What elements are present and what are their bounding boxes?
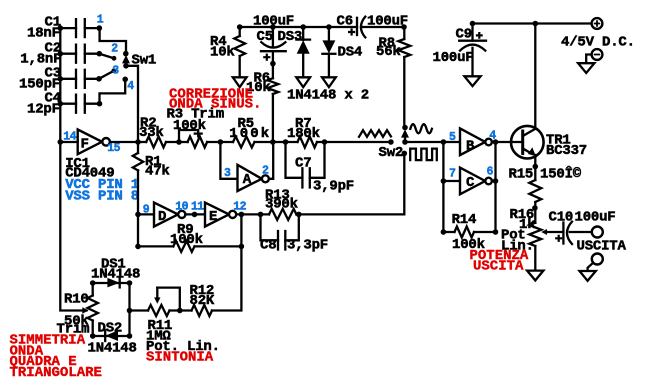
svg-text:100k: 100k: [229, 126, 271, 142]
node 10-11: [192, 212, 198, 218]
node Sw2 sine contact: [402, 125, 408, 131]
plus terminal: [592, 18, 603, 29]
node DS2 right: [127, 333, 133, 339]
node bus-C3: [58, 76, 64, 82]
wire R9 right: [195, 245, 242, 247]
node R4 top: [237, 24, 243, 30]
wire supply rail: [473, 22, 592, 24]
node DS4 top: [326, 24, 332, 30]
resistor R11 potentiometer: [148, 305, 170, 316]
Sw1 contact 4: [122, 77, 128, 83]
resistor R5: [233, 137, 255, 148]
resistor R3 trimmer: [188, 137, 208, 148]
node bus-C4: [58, 101, 64, 107]
svg-text:BC337: BC337: [546, 143, 587, 159]
svg-text:390k: 390k: [265, 197, 298, 213]
svg-text:3,9pF: 3,9pF: [313, 179, 354, 195]
node R2-R3 junction: [176, 139, 182, 145]
node bus-C2: [58, 51, 64, 57]
node C7 right junction: [322, 139, 328, 145]
wire R15-R16: [534, 202, 536, 223]
node C out: [493, 178, 499, 184]
node DS1 right: [127, 280, 133, 286]
svg-text:DS2: DS2: [98, 321, 123, 337]
node collector rail: [533, 21, 539, 27]
capacitor C7: [286, 142, 303, 178]
svg-text:USCITA: USCITA: [577, 239, 627, 255]
wire R16 bottom to ground: [534, 246, 536, 271]
resistor R7: [298, 137, 318, 148]
node B out: [493, 139, 499, 145]
wire top rail: [240, 26, 357, 28]
svg-text:82K: 82K: [190, 293, 215, 309]
svg-text:15: 15: [107, 142, 120, 155]
svg-text:C7: C7: [295, 156, 311, 172]
resistor R10 trimmer: [92, 283, 94, 296]
node Sw2 square contact: [402, 151, 408, 157]
svg-text:1: 1: [97, 13, 104, 26]
wire Sw1 common to main line: [126, 66, 138, 142]
resistor R6: [268, 78, 279, 94]
node bus-F-input: [58, 139, 64, 145]
svg-text:USCITA: USCITA: [473, 258, 524, 274]
Sw2 wiper arrow: [401, 129, 409, 137]
capacitor C2: [60, 53, 76, 55]
op-amp U1A inverter A: [238, 165, 262, 191]
wire R13 to Sw2 square contact: [296, 153, 404, 214]
node R15-R16: [532, 205, 538, 211]
node R14 left: [441, 229, 447, 235]
resistor R13: [269, 209, 296, 220]
svg-text:33k: 33k: [139, 125, 164, 141]
svg-text:7: 7: [449, 168, 456, 181]
wire R2-R3: [166, 141, 188, 143]
resistor R14: [455, 227, 475, 238]
svg-text:100uF: 100uF: [253, 14, 294, 30]
svg-text:B: B: [466, 138, 475, 154]
capacitor C3: [60, 78, 76, 80]
svg-text:D: D: [158, 209, 166, 225]
resistor R12: [192, 305, 213, 316]
transistor TR1 BC337: [511, 126, 544, 159]
op-amp U1D inverter D: [154, 203, 178, 227]
svg-text:100uF: 100uF: [433, 50, 474, 66]
node C9 top: [470, 21, 476, 27]
op-amp U1F inverter F: [78, 130, 102, 155]
svg-text:VSS PIN 8: VSS PIN 8: [65, 189, 139, 205]
Sw1 contact 3: [96, 76, 102, 82]
Sw1 contact 1: [97, 25, 103, 31]
svg-text:100k: 100k: [170, 232, 203, 248]
square wave icon: [410, 149, 437, 161]
node F-out/Sw1/R1: [135, 139, 141, 145]
wire A output up to main: [269, 142, 273, 179]
node B input: [441, 139, 447, 145]
output ground terminal: [592, 254, 603, 265]
svg-text:3: 3: [112, 64, 119, 77]
wire DS2 bottom rail: [93, 335, 130, 337]
node R11 right/bracket: [177, 308, 183, 314]
wire A input: [220, 142, 237, 179]
Sw1 wiper arrow: [122, 55, 130, 63]
wire R3-R5: [207, 141, 233, 143]
node Sw2 common: [402, 139, 408, 145]
svg-text:18nF: 18nF: [27, 26, 60, 42]
Sw1 contact 2: [97, 51, 103, 57]
wire TR1 collector to rail: [534, 24, 536, 129]
svg-text:A: A: [243, 172, 252, 188]
sine wave icon: [410, 124, 432, 133]
capacitor C10: [562, 223, 564, 244]
svg-text:100uF: 100uF: [575, 210, 616, 226]
wire Sw2 pivot stem: [404, 137, 406, 142]
svg-text:1N4148 x 2: 1N4148 x 2: [287, 88, 369, 104]
wire R14 right: [474, 231, 496, 233]
resistor R1: [133, 153, 143, 170]
wire TR1 emitter down: [534, 155, 536, 180]
wire main to R1: [137, 142, 139, 153]
svg-text:3: 3: [224, 167, 231, 180]
wire E output: [236, 213, 269, 215]
svg-text:9: 9: [143, 203, 150, 216]
R3 trimmer bracket: [179, 130, 198, 142]
svg-text:C10: C10: [549, 210, 574, 226]
node C7 left junction: [283, 139, 289, 145]
diode DS3: [302, 27, 304, 40]
ground arrow below DS3: [296, 77, 310, 87]
wire diode loop right rail: [128, 283, 130, 336]
svg-text:C8: C8: [260, 238, 276, 254]
diode DS4: [328, 27, 330, 40]
svg-text:14: 14: [63, 131, 76, 144]
C5 plus sign: [263, 54, 270, 61]
svg-text:12: 12: [233, 200, 246, 213]
wire minus terminal to ground: [586, 55, 591, 64]
svg-text:Sw2: Sw2: [379, 145, 404, 161]
svg-text:11: 11: [191, 200, 204, 213]
wire Sw1 contact4 to C4: [100, 79, 126, 103]
wire F input: [60, 141, 77, 143]
node C4 contact: [97, 101, 103, 107]
minus terminal: [592, 49, 603, 60]
C9 plus sign: [476, 32, 483, 39]
svg-text:10: 10: [175, 200, 188, 213]
node bus-C1: [58, 25, 64, 31]
resistor R2: [146, 137, 166, 148]
svg-text:TRIANGOLARE: TRIANGOLARE: [10, 365, 102, 381]
svg-text:12pF: 12pF: [27, 101, 60, 117]
svg-text:4: 4: [127, 80, 134, 93]
svg-text:2: 2: [111, 42, 118, 55]
ground arrow below output: [580, 271, 596, 281]
ground arrow below minus: [578, 63, 594, 73]
node emitter: [533, 164, 539, 170]
svg-text:180k: 180k: [287, 126, 320, 142]
Sw1 arm from contact 3: [99, 71, 114, 79]
diode DS2: [105, 330, 118, 341]
node DS1 left: [90, 280, 96, 286]
wire E-out vertical to R12 line: [212, 214, 241, 310]
svg-text:DS4: DS4: [338, 45, 363, 61]
svg-text:SINTONIA: SINTONIA: [146, 350, 214, 366]
svg-text:C5: C5: [257, 29, 273, 45]
svg-text:Sw1: Sw1: [132, 53, 157, 69]
capacitor C9: [471, 24, 473, 41]
node R9 right: [239, 244, 245, 250]
capacitor C6: [356, 18, 358, 35]
wire C output: [492, 180, 496, 182]
svg-text:ONDA SINUS.: ONDA SINUS.: [169, 96, 261, 112]
wire R6 to main line: [272, 94, 274, 142]
wire Sw1 contact1 to pivot: [100, 28, 126, 52]
resistor R15: [529, 180, 541, 202]
op-amp U1E inverter E: [205, 203, 229, 227]
node C input: [441, 178, 447, 184]
ground arrow below C9: [464, 76, 480, 86]
C10 plus sign: [555, 235, 562, 242]
node diode loop right mid: [127, 308, 133, 314]
node R14 right: [493, 229, 499, 235]
C6 plus sign: [348, 28, 355, 35]
output terminal USCITA: [592, 227, 603, 238]
wire out vertical to R14: [494, 142, 496, 232]
wire R5-R7: [255, 141, 298, 143]
wire B output to TR1 base: [492, 141, 522, 143]
capacitor C4: [60, 103, 76, 105]
svg-text:C9: C9: [456, 27, 472, 43]
ground arrow below DS4: [322, 77, 336, 87]
triangle wave icon: [359, 130, 391, 137]
Sw1 arm from contact 2: [99, 54, 114, 59]
wire R11 to diode loop: [130, 309, 149, 311]
node DS2 left: [90, 333, 96, 339]
node Sw2 triangle contact: [388, 139, 394, 145]
resistor R8: [403, 27, 405, 39]
wire left bus (C1-C4 / F input / R10 wiper): [60, 28, 86, 310]
node R9 left: [135, 244, 141, 250]
node R3-R5 junction (A input): [218, 139, 224, 145]
diode DS1: [107, 278, 119, 288]
wire C input: [443, 180, 460, 182]
svg-text:150Î©: 150Î©: [540, 164, 582, 182]
node DS3 top: [300, 24, 306, 30]
resistor R16 potentiometer: [529, 223, 541, 246]
resistor R9: [173, 241, 194, 252]
svg-text:5: 5: [449, 131, 456, 144]
svg-text:1N4148: 1N4148: [88, 341, 137, 357]
svg-text:10k: 10k: [210, 44, 235, 60]
capacitor C1: [60, 27, 76, 29]
svg-text:1N4148: 1N4148: [91, 267, 140, 283]
node E out: [239, 212, 245, 218]
wire B-C input vertical: [443, 142, 454, 232]
resistor R4: [239, 27, 241, 36]
Sw1 pivot lower node: [123, 63, 129, 69]
ground arrow below R16: [527, 271, 543, 281]
node C5 top: [270, 24, 276, 30]
svg-text:6: 6: [487, 165, 494, 178]
R11 wiper arrow: [156, 288, 158, 299]
node C8 right: [296, 212, 302, 218]
node C5-R6: [270, 61, 276, 67]
wire Sw2 common to B: [405, 141, 460, 143]
R16 wiper to C10: [545, 231, 563, 233]
svg-text:DS3: DS3: [278, 29, 303, 45]
svg-text:R15: R15: [509, 166, 534, 182]
wire R1 to pin9 node: [137, 170, 139, 214]
node C8 left: [258, 212, 264, 218]
R10 wiper arrow: [82, 307, 88, 313]
wire D out to E in: [185, 213, 205, 215]
svg-text:C6: C6: [337, 13, 353, 29]
op-amp U1B inverter B: [460, 128, 485, 155]
svg-text:R14: R14: [452, 212, 477, 228]
node R6/A-out junction: [270, 139, 276, 145]
wire F output to R2: [110, 141, 146, 143]
wire R7 to Sw2: [317, 141, 391, 143]
svg-text:56k: 56k: [376, 44, 401, 60]
svg-text:100k: 100k: [173, 118, 206, 134]
wire pin9 node to D: [138, 213, 154, 215]
wire DS1 top rail: [93, 282, 130, 284]
svg-text:E: E: [209, 209, 217, 225]
wire R12-R11: [170, 309, 192, 311]
svg-text:3,3pF: 3,3pF: [287, 238, 328, 254]
svg-text:R10: R10: [64, 292, 89, 308]
svg-text:C: C: [466, 175, 475, 191]
op-amp U1C inverter C: [460, 168, 485, 195]
wire bus pin9 to R9: [138, 214, 173, 246]
node pin9: [135, 212, 141, 218]
svg-text:47k: 47k: [145, 164, 170, 180]
Sw1 pivot node: [123, 51, 129, 57]
node C6-R8: [401, 24, 407, 30]
capacitor C5: [272, 27, 274, 46]
svg-text:2: 2: [262, 164, 269, 177]
svg-text:F: F: [81, 136, 89, 152]
ground arrow below R4: [233, 77, 247, 87]
capacitor C8: [261, 214, 279, 240]
